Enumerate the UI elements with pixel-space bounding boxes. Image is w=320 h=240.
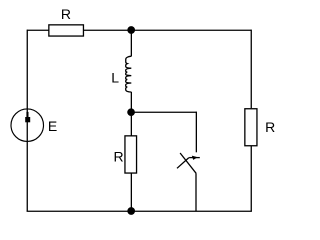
wire bottom (27, 210, 252, 212)
svg-text:R: R (114, 149, 124, 165)
wire middle branch upper (130, 30, 132, 56)
svg-text:R: R (265, 119, 275, 135)
node A (top junction) (127, 26, 135, 34)
wire left vertical lower (26, 141, 28, 211)
node C (bottom junction) (127, 207, 135, 215)
switch blade (177, 158, 189, 169)
wire middle branch lower (130, 173, 132, 211)
wire switch branch horizontal (131, 111, 196, 113)
source E arrow (26, 112, 28, 117)
resistor R3 (245, 109, 257, 146)
wire right vertical upper (250, 30, 252, 109)
wire switch stub lower (195, 173, 197, 211)
wire middle branch between L and node (130, 92, 132, 112)
wire middle branch into resistor (130, 112, 132, 136)
resistor R1 (49, 25, 84, 36)
node B (below inductor) (127, 108, 135, 116)
svg-text:E: E (48, 118, 57, 134)
wire switch stub upper (195, 112, 197, 153)
wire top-middle (83, 29, 251, 31)
wire through source (26, 109, 28, 142)
wire right vertical lower (250, 146, 252, 212)
resistor R2 (125, 136, 137, 173)
switch arrow line (189, 157, 200, 159)
inductor L (126, 56, 132, 92)
switch cross line (180, 153, 196, 173)
wire left vertical (26, 30, 28, 110)
switch arrowhead (192, 156, 198, 160)
svg-text:R: R (61, 6, 71, 22)
source E circle (11, 109, 44, 142)
wire top-left (27, 29, 49, 31)
svg-text:L: L (111, 70, 119, 86)
